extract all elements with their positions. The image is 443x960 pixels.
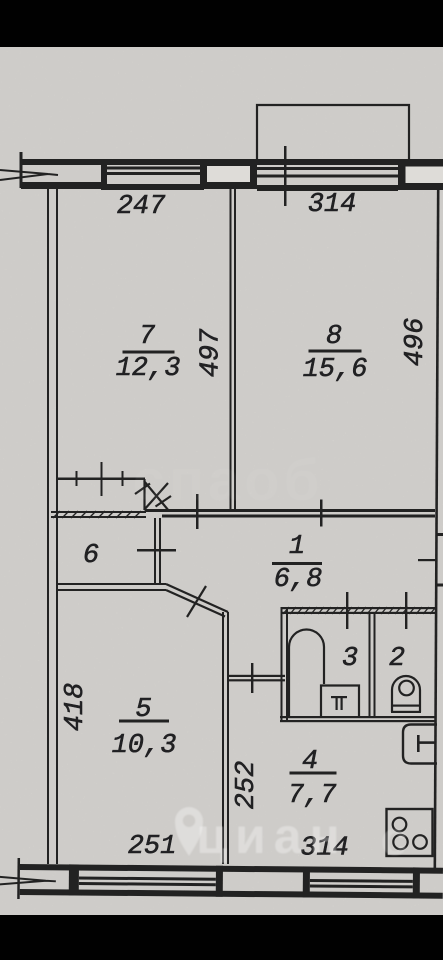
wardrobe tick 2 [101,462,103,496]
bottom wall pier caps [216,866,223,897]
toilet door tick [405,592,407,629]
svg-text:12,3: 12,3 [116,354,181,384]
bathroom door tick [346,592,348,629]
washbasin pedestal symbol [331,696,347,698]
svg-text:251: 251 [128,832,177,862]
ventilation box with cross [135,479,171,511]
top wall pier between windows [200,159,257,189]
svg-text:314: 314 [308,190,357,220]
right wall outer stub B [437,584,443,587]
top wall break symbol [0,170,58,180]
svg-text:с: с [381,813,408,866]
window W4 (314) pane lines [310,879,413,883]
svg-text:1: 1 [289,532,305,562]
wall between 3 and 2 [369,614,371,716]
kitchen sink tap [417,735,420,752]
bottom wall left end tick [17,858,20,899]
bottom wall right pier cap [413,867,420,898]
hatched partition wall left of hall [51,511,146,513]
closet 6 bottom wall [58,583,166,585]
svg-text:8: 8 [326,322,342,352]
photo black bar bottom [0,915,443,960]
kitchen fraction bar [290,772,337,775]
top wall pier solid [101,159,107,189]
bottom exterior wall group [0,858,443,903]
bathroom block bottom wall [280,716,436,718]
washbasin box [321,686,359,717]
svg-text:3: 3 [342,644,358,674]
svg-text:10,3: 10,3 [112,731,177,761]
svg-text:252: 252 [232,761,262,810]
top wall left end tick [20,152,23,188]
corridor door tick [251,663,253,693]
hall fraction bar [272,562,322,565]
hall top wall lower line [162,515,435,518]
hall niche line [418,559,436,561]
wall room5 | kitchen corridor [222,612,224,864]
right wall outer stub A [437,533,443,536]
hall top wall upper line [145,509,435,512]
top wall outer bar [21,159,443,165]
top wall right pier [398,160,443,191]
svg-text:496: 496 [401,318,431,367]
room 8 fraction bar [309,350,362,353]
bathroom left wall [281,607,283,722]
balcony outline [257,105,409,163]
window W1 (247) pane lines [107,167,204,170]
kitchen stove [387,809,433,856]
cian watermark pin [175,807,203,856]
svg-text:7,7: 7,7 [288,781,337,811]
bottom wall outer bar [20,889,443,899]
svg-text:418: 418 [61,683,91,732]
bathtub [289,630,324,717]
wardrobe tick 1 [76,471,78,486]
svg-text:247: 247 [117,192,166,222]
top wall inner bar left segment [21,182,101,189]
door tick room 7 [196,494,199,529]
svg-text:15,6: 15,6 [303,355,368,385]
wall between rooms 7 and 8 [230,189,232,509]
svg-text:7: 7 [139,322,156,352]
bottom wall break symbol [0,877,56,885]
bathroom block top wall [281,607,436,609]
svg-text:спаоб: спаоб [133,448,324,513]
door tick on diagonal [187,586,206,617]
corridor wall hall|kitchen [227,675,285,677]
svg-text:6,8: 6,8 [274,565,323,595]
toilet [392,676,420,712]
wardrobe tick 3 [122,471,124,486]
svg-text:6: 6 [83,541,99,571]
svg-text:2: 2 [389,644,405,674]
svg-text:497: 497 [197,328,227,377]
kitchen sink [403,725,437,764]
room 5 fraction bar [119,720,169,723]
closet 6 door tick [137,549,176,552]
window W2 (314) pane lines [257,167,398,170]
door tick room 8 [320,500,323,527]
svg-text:циан: циан [196,808,347,864]
photo black bar top [0,0,443,47]
left exterior wall (double line) [47,188,49,864]
wardrobe front line [57,478,145,481]
room 7 fraction bar [123,351,175,354]
bottom wall solid cap [69,864,79,895]
bottom wall inner bar [20,864,443,874]
diagonal wall room 5 corner [166,584,228,617]
window W3 (251) pane lines [79,877,216,881]
closet 6 right wall [154,518,156,584]
balcony door tick [284,146,287,206]
right exterior wall [435,190,438,870]
